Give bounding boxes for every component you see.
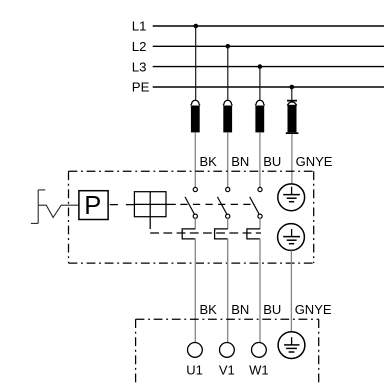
wire actuator right stub (166, 203, 176, 205)
svg-text:L2: L2 (132, 39, 147, 54)
motor terminal V1 (220, 343, 235, 358)
svg-text:P: P (84, 192, 101, 220)
junction L2 tap (226, 44, 231, 49)
svg-text:BK: BK (200, 302, 218, 317)
svg-text:U1: U1 (186, 363, 203, 378)
wire actuator bottom stub (149, 217, 151, 229)
wire L1 bus (153, 25, 384, 27)
enclosure motor dash-dot box (136, 319, 319, 384)
junction PE tap (290, 85, 295, 90)
dashed link P box to actuator (110, 204, 135, 206)
wire L2 bus (153, 45, 384, 47)
junction L1 tap (194, 24, 199, 29)
svg-text:W1: W1 (249, 363, 269, 378)
svg-text:GNYE: GNYE (296, 154, 333, 169)
svg-text:V1: V1 (219, 363, 235, 378)
capillary sensor symbol (31, 190, 79, 224)
wire PE bus (153, 86, 384, 88)
wire PE drop (291, 87, 293, 100)
earth terminal E2 (lower) (278, 224, 305, 251)
wire L3 drop (259, 67, 261, 101)
earth terminal E1 (upper) (278, 184, 305, 211)
wire E2 to motor earth (290, 250, 292, 331)
svg-text:BN: BN (231, 154, 249, 169)
contact S2 (BN) (215, 187, 230, 342)
motor terminal W1 (252, 343, 267, 358)
svg-text:L3: L3 (132, 59, 147, 74)
svg-text:L1: L1 (132, 19, 147, 34)
motor earth terminal (278, 332, 305, 359)
wire L3 bus (153, 66, 384, 68)
cable core marker BU (255, 100, 265, 187)
cable core marker BN (223, 100, 233, 187)
wire L1 drop (195, 26, 197, 101)
pressure switch B1 box (79, 191, 108, 220)
enclosure upper dash-dot box (69, 171, 314, 263)
svg-text:BK: BK (200, 154, 218, 169)
cable core marker BK (190, 100, 200, 187)
svg-text:BN: BN (231, 302, 249, 317)
mechanical linkage (trip bar) (150, 232, 261, 234)
actuator crossed box (134, 192, 166, 217)
svg-text:GNYE: GNYE (295, 302, 332, 317)
junction L3 tap (258, 64, 263, 69)
svg-text:PE: PE (132, 80, 150, 95)
svg-text:BU: BU (263, 154, 281, 169)
wire L2 drop (227, 46, 229, 100)
contact S1 (BK) (182, 187, 197, 342)
motor terminal U1 (188, 343, 203, 358)
mechanical linkage (blades) (180, 203, 256, 205)
cable core marker GNYE (286, 100, 299, 184)
contact S3 (BU) (247, 187, 262, 342)
svg-text:BU: BU (263, 302, 281, 317)
